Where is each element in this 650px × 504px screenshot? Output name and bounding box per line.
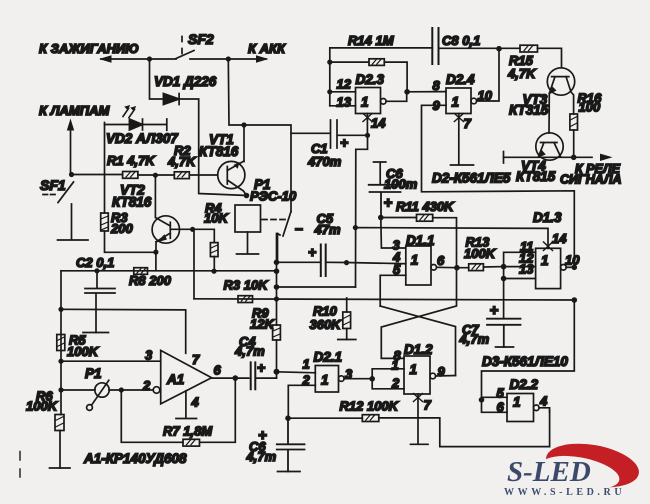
node D2.3 left top	[327, 60, 332, 65]
svg-text:R11 430K: R11 430K	[396, 199, 455, 214]
svg-text:R3 10K: R3 10K	[224, 278, 270, 293]
svg-text:6: 6	[214, 363, 222, 378]
svg-text:9: 9	[438, 364, 446, 379]
wire D2.4 pin8	[407, 91, 446, 93]
svg-text:SF1: SF1	[40, 177, 66, 193]
node VT2 emitter bottom	[153, 250, 158, 255]
capacitor C2	[85, 271, 115, 333]
resistor R10	[343, 312, 351, 329]
gate D1.1	[406, 246, 437, 285]
terminal arrow K ZAZHIGANIYU	[99, 55, 112, 62]
svg-text:VD1 Д226: VD1 Д226	[154, 74, 217, 89]
svg-text:8: 8	[433, 78, 441, 93]
ground R6	[50, 467, 71, 469]
gate D2.2	[507, 394, 539, 422]
wire R10 stem	[346, 298, 348, 340]
svg-text:5: 5	[393, 262, 401, 277]
capacitor C6 4,7m	[277, 418, 305, 471]
node D1.3 pin12	[501, 264, 507, 270]
transistor VT2	[152, 216, 193, 252]
wire D1.1 output	[437, 266, 469, 268]
svg-text:D1.1: D1.1	[406, 233, 435, 248]
svg-text:1: 1	[321, 373, 329, 388]
wire center column	[276, 234, 278, 379]
wire +12V column	[356, 135, 368, 287]
wire D2.1 pin2	[288, 385, 315, 418]
svg-text:9: 9	[433, 98, 441, 113]
pin7 D1.2 stub	[411, 394, 429, 444]
svg-text:47m: 47m	[314, 222, 341, 237]
wire R11 row	[381, 218, 457, 268]
svg-text:К ЛАМПАМ: К ЛАМПАМ	[39, 103, 110, 118]
svg-text:3: 3	[345, 367, 353, 382]
wire R8/C2 top rail	[61, 270, 277, 272]
svg-text:4,7m: 4,7m	[234, 344, 265, 359]
resistor R7	[183, 439, 200, 446]
switch SF1	[43, 182, 74, 203]
svg-text:10: 10	[565, 253, 580, 268]
wire feedback down	[121, 390, 183, 442]
svg-text:А1-КР140УД608: А1-КР140УД608	[83, 451, 187, 466]
resistor R11	[417, 214, 433, 221]
svg-text:+: +	[258, 427, 267, 444]
node R11/pin3	[378, 215, 384, 221]
node D1.3 out	[572, 265, 578, 271]
svg-text:D1.2: D1.2	[404, 342, 433, 357]
resistor R3 (200)	[101, 213, 109, 231]
svg-text:R7 1,8М: R7 1,8М	[163, 424, 213, 439]
svg-text:S-LED: S-LED	[507, 456, 591, 488]
wire R7 to output	[200, 378, 236, 442]
svg-text:+: +	[308, 244, 316, 260]
svg-text:1: 1	[303, 357, 310, 372]
wire R15 to VT3	[538, 48, 562, 68]
node ignition/VD1	[147, 56, 152, 61]
svg-text:3: 3	[145, 348, 153, 363]
wire A1 pin3	[61, 360, 161, 362]
node A1 pin2 junction	[119, 387, 124, 392]
svg-text:100m: 100m	[384, 177, 418, 192]
svg-text:7: 7	[424, 398, 432, 413]
gate D2.4	[446, 88, 477, 114]
svg-text:4,7K: 4,7K	[167, 154, 197, 169]
wire VD1 branch	[150, 59, 247, 196]
node VT1 collector / relay top	[244, 193, 250, 199]
wire VT2 base column	[154, 175, 156, 217]
svg-text:R14 1M: R14 1M	[348, 33, 395, 48]
wire D1.1 pin3	[381, 218, 406, 249]
svg-text:10: 10	[478, 88, 493, 103]
pin7 D2.4 stub	[451, 114, 474, 166]
node D1.3 pin13	[501, 276, 507, 282]
wire R16 to output	[573, 130, 575, 157]
svg-text:КТ816: КТ816	[199, 144, 239, 159]
wire D2.3 pin12	[330, 91, 356, 93]
wire R4 branch	[193, 229, 215, 271]
svg-text:D2-К561ЛЕ5: D2-К561ЛЕ5	[432, 171, 511, 186]
svg-text:R12 100K: R12 100K	[340, 399, 400, 414]
svg-text:1: 1	[410, 362, 418, 377]
svg-text:A1: A1	[166, 372, 184, 387]
wire C8 to R15	[439, 47, 521, 49]
svg-text:6: 6	[497, 400, 505, 415]
logo S-LED swoosh	[538, 437, 642, 495]
wire VT3 emitter to VT4 base	[548, 94, 550, 134]
terminal bar VT4 emitter	[503, 152, 505, 164]
wire VD2-R3 column	[105, 125, 156, 253]
node C6 4,7m top	[285, 415, 291, 421]
wire A1 pin7 supply	[61, 309, 186, 353]
diode VD2	[129, 119, 142, 130]
svg-text:КТ315: КТ315	[509, 103, 549, 118]
wire lamp column	[70, 130, 72, 175]
node C5 right	[344, 260, 349, 265]
wire C5 row	[277, 262, 406, 263]
capacitor C4	[251, 362, 256, 389]
svg-text:10K: 10K	[204, 211, 229, 226]
ground relay P1	[237, 232, 259, 254]
node D2.3 out R14	[404, 89, 410, 95]
wire VD2 cathode / lamp terminal bar	[143, 119, 167, 130]
svg-text:14: 14	[371, 116, 386, 131]
resistor R12	[362, 415, 379, 422]
pin14 D1.3 cross mark	[544, 242, 553, 251]
node D1.1 out	[454, 265, 460, 271]
node rail right end	[274, 268, 280, 274]
node D2.1 out	[369, 376, 375, 382]
diode VD1	[163, 94, 179, 105]
node C1 plus	[365, 133, 370, 138]
resistor R14	[369, 59, 384, 66]
terminal arrow K LAMPAM	[67, 119, 74, 131]
transistor VT3	[547, 68, 574, 114]
svg-text:+: +	[340, 135, 348, 151]
svg-text:РЭС-10: РЭС-10	[250, 189, 297, 204]
node SF1	[69, 172, 74, 177]
svg-text:D2.3: D2.3	[356, 72, 385, 87]
svg-text:100K: 100K	[67, 344, 100, 359]
svg-text:СИГНАЛА: СИГНАЛА	[560, 173, 622, 187]
capacitor C6 100m	[369, 185, 401, 218]
svg-text:1: 1	[411, 253, 419, 268]
wire R2 to VT1 base	[189, 174, 217, 176]
wire C4 right	[255, 377, 276, 379]
node center column C5	[274, 260, 280, 266]
relay P1 contact	[262, 212, 291, 263]
node R16 output	[571, 155, 577, 161]
gate D2.1	[315, 366, 344, 393]
svg-text:100: 100	[579, 100, 601, 115]
resistor R4	[210, 243, 218, 257]
resistor R16	[570, 114, 578, 130]
svg-text:R1 4,7K: R1 4,7K	[107, 153, 156, 168]
svg-text:4,7m: 4,7m	[459, 332, 490, 347]
gate D1.2	[404, 356, 436, 394]
wire VT1 emitter	[243, 125, 245, 162]
wire y287 link	[277, 286, 356, 288]
wire R6 column	[60, 390, 61, 468]
wire relay output row	[504, 156, 593, 158]
gate D2.3	[356, 88, 387, 114]
svg-text:5: 5	[497, 386, 505, 401]
wire R1-R2	[138, 174, 174, 176]
svg-text:360K: 360K	[310, 317, 343, 332]
svg-text:1: 1	[541, 253, 549, 268]
svg-text:1: 1	[452, 95, 460, 110]
pin14 D2.3 stub	[366, 114, 368, 136]
transistor VT4	[536, 133, 563, 160]
svg-text:КТ816: КТ816	[112, 195, 152, 210]
capacitor C7	[487, 319, 521, 347]
svg-text:К АКК: К АКК	[248, 41, 286, 56]
resistor R1	[123, 172, 138, 179]
gate D1.3	[536, 248, 567, 288]
wire D1.1 pin5	[380, 275, 406, 306]
svg-text:1: 1	[361, 95, 369, 110]
svg-text:4,7m: 4,7m	[246, 449, 277, 464]
node bus D1.3 column	[572, 297, 578, 303]
svg-text:C2 0,1: C2 0,1	[76, 255, 114, 270]
svg-text:+: +	[384, 195, 393, 212]
wire D2.3 pin13	[330, 105, 356, 107]
svg-text:4: 4	[539, 394, 548, 409]
resistor R13	[469, 264, 484, 271]
pin7 D2.4 cross mark	[454, 114, 463, 122]
wire left column R5	[60, 271, 62, 390]
node center column pin1 D2.1	[274, 369, 280, 375]
svg-text:2: 2	[142, 378, 151, 393]
svg-text:D2.4: D2.4	[446, 72, 475, 87]
wire cross coupling diagonal 2	[381, 268, 456, 359]
wire D2.3 output	[386, 92, 407, 102]
node +12V column y227	[353, 225, 358, 230]
wire VT2 to R3-10K bus column	[193, 229, 194, 298]
svg-text:D1.3: D1.3	[533, 210, 562, 225]
pin7 D1.2 cross mark	[414, 394, 423, 402]
node R8 rail / R4	[211, 269, 216, 274]
svg-text:12: 12	[337, 77, 352, 92]
svg-text:VD2 АЛ307: VD2 АЛ307	[106, 131, 179, 146]
wire R12 row	[288, 411, 550, 447]
node D2.3 left pin12	[327, 89, 332, 94]
node A1 output / R7	[233, 375, 239, 381]
svg-text:470m: 470m	[307, 154, 342, 169]
svg-text:−: −	[295, 221, 303, 237]
resistor R15	[520, 45, 538, 52]
resistor R9	[273, 325, 281, 340]
capacitor C1	[291, 120, 368, 148]
wire A1 pin4 ground	[176, 391, 197, 419]
potentiometer P1	[87, 380, 110, 410]
wire R1 input	[72, 174, 123, 176]
node C2 stem	[94, 268, 99, 273]
wire D2.4 output	[477, 49, 499, 101]
capacitor C8	[432, 28, 438, 64]
ground R10	[338, 339, 356, 341]
wire VD2 anode	[105, 123, 130, 125]
wire D1.3 input bracket	[504, 252, 536, 318]
wire R14 branch	[330, 62, 407, 92]
svg-text:100K: 100K	[464, 246, 497, 261]
node P1 pot left	[58, 387, 63, 392]
svg-text:+: +	[257, 360, 265, 376]
svg-text:SF2: SF2	[188, 31, 214, 47]
wire R14 top	[330, 48, 433, 106]
resistor R3 10K	[238, 296, 253, 303]
node R15 C8 pin10	[496, 46, 502, 52]
node R5 top	[58, 307, 63, 312]
ground C6 100m	[374, 162, 386, 185]
svg-text:D2.1: D2.1	[314, 350, 343, 365]
switch SF2	[176, 37, 194, 59]
svg-text:12K: 12K	[250, 317, 275, 332]
LED arrows VD2	[123, 105, 136, 118]
svg-text:D3-К561ЛЕ10: D3-К561ЛЕ10	[482, 354, 568, 369]
svg-text:7: 7	[192, 352, 200, 367]
svg-text:13: 13	[519, 262, 534, 277]
svg-text:1: 1	[513, 395, 521, 410]
node VT2 collector right	[190, 227, 195, 232]
svg-text:6: 6	[437, 253, 445, 268]
resistor R6	[55, 415, 64, 431]
svg-text:4: 4	[191, 395, 200, 410]
ground C7	[496, 346, 514, 348]
wire D1.2 output	[436, 375, 456, 378]
pin14 D2.3 cross mark	[363, 114, 372, 122]
wire D1.3 pin14 long	[355, 228, 548, 249]
ground SF1	[58, 204, 89, 240]
node center column y287	[274, 284, 280, 290]
wire output bus y300	[194, 299, 574, 300]
node center column bus	[274, 296, 279, 301]
svg-text:R8 200: R8 200	[129, 273, 172, 288]
wire D1.2 input bracket	[372, 369, 404, 389]
op-amp A1	[153, 350, 211, 404]
svg-text:7: 7	[464, 116, 472, 131]
svg-text:D2.2: D2.2	[510, 377, 539, 392]
svg-text:13: 13	[337, 95, 352, 110]
wire D2.4pin9 feedback	[422, 105, 575, 267]
wire D2.2 inputs	[482, 300, 575, 412]
svg-text:+: +	[490, 302, 499, 319]
resistor R5	[57, 335, 65, 351]
node AKK	[226, 56, 231, 61]
svg-text:C8 0,1: C8 0,1	[442, 33, 480, 48]
svg-text:P1: P1	[85, 366, 102, 381]
svg-text:К ЗАЖИГАНИЮ: К ЗАЖИГАНИЮ	[39, 41, 139, 56]
wire D2.1 output	[344, 378, 372, 380]
relay P1 coil	[235, 205, 261, 232]
node VT1 emitter	[241, 122, 246, 127]
wire VT2 bottom to R8 wire	[155, 252, 157, 271]
wire D2.2 output drop	[539, 408, 550, 412]
wire AKK column	[228, 59, 291, 212]
wire pot row	[61, 389, 153, 391]
svg-text:200: 200	[110, 221, 133, 236]
wire R13 to D1.3	[483, 266, 503, 268]
svg-text:WWW.S-LED.RU: WWW.S-LED.RU	[504, 487, 625, 498]
svg-text:4,7K: 4,7K	[507, 66, 537, 81]
terminal arrow K RELE	[600, 154, 613, 161]
node VT2 base	[153, 173, 158, 178]
terminal arrow K AKK	[256, 55, 269, 62]
capacitor C5	[321, 245, 326, 277]
node R5 bottom / pin3	[58, 359, 63, 364]
wire A1 output	[212, 377, 249, 379]
transistor VT1	[218, 161, 247, 196]
svg-text:2: 2	[391, 376, 400, 391]
wire ignition line	[101, 58, 266, 60]
resistor R8	[134, 268, 148, 275]
stray dashes left margin	[19, 452, 21, 478]
svg-text:1: 1	[392, 358, 399, 373]
wire cross coupling diagonal 1	[380, 306, 455, 376]
node D2.2 input bracket	[479, 397, 485, 403]
wire D1.3 output	[566, 266, 574, 268]
svg-text:14: 14	[552, 231, 567, 246]
wire D2.1 pin1	[277, 372, 316, 373]
svg-text:КТ815: КТ815	[516, 169, 556, 184]
resistor R2	[174, 172, 189, 179]
svg-text:100K: 100K	[26, 399, 59, 414]
ground C6 4,7m	[278, 471, 301, 473]
ground C2	[83, 332, 109, 334]
svg-text:2: 2	[302, 373, 311, 388]
